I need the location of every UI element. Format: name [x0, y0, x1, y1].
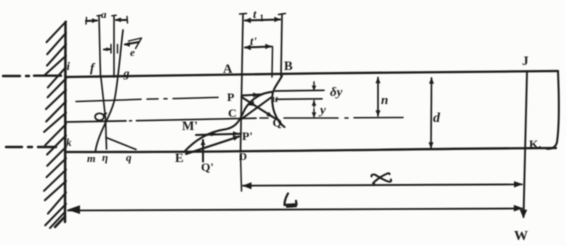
curve of displaced section B-u-Q — [272, 76, 284, 127]
svg-text:J: J — [522, 53, 529, 68]
dimension n — [377, 78, 379, 117]
svg-text:t': t' — [250, 34, 257, 48]
P fibre line (left, dash-dot to P) — [76, 97, 218, 101]
dimension t1 — [245, 20, 280, 21]
wall hatching — [44, 22, 66, 229]
section AD line — [241, 14, 244, 152]
fibre V1 top serif — [97, 14, 102, 17]
M' to P' arrow line — [196, 134, 241, 135]
beam bottom line — [66, 148, 556, 152]
svg-text:g: g — [123, 66, 130, 80]
fibre V2 top serif — [112, 14, 117, 17]
fibre vertical V1 (left of section mf) — [99, 16, 101, 77]
svg-text:Q': Q' — [201, 160, 214, 174]
svg-text:E: E — [175, 150, 184, 165]
dimension a: right arrow — [116, 19, 127, 21]
dimension a (top-left): left arrow — [86, 20, 97, 23]
svg-text:k: k — [66, 137, 72, 149]
svg-text:Q: Q — [273, 116, 282, 130]
svg-text:t: t — [253, 7, 257, 21]
warped section S-curve (through o to m) — [96, 30, 124, 151]
y tick upper — [313, 101, 315, 108]
dash extension bottom-left — [6, 146, 56, 148]
svg-text:1: 1 — [260, 13, 265, 23]
svg-text:δy: δy — [330, 84, 343, 99]
bottom triangle hypotenuse — [106, 138, 136, 150]
Q' vertical arrow — [202, 140, 204, 162]
e ticks — [110, 45, 112, 54]
X line P to Q — [242, 97, 277, 119]
beam top line — [66, 71, 558, 77]
svg-text:y: y — [318, 102, 326, 117]
svg-text:P: P — [227, 90, 234, 104]
B section top serif — [279, 14, 286, 15]
E to P' slant arrow — [186, 137, 239, 155]
dimension x line — [243, 184, 522, 185]
load W line (section JK) — [524, 72, 528, 218]
svg-text:e: e — [130, 47, 135, 59]
svg-text:M': M' — [182, 118, 198, 133]
neutral axis line (through o and C) — [66, 121, 126, 122]
W arrowhead — [520, 209, 528, 218]
section AD extension below beam — [241, 155, 242, 191]
dash-dot extension top-left — [3, 74, 61, 77]
section AD top serif — [240, 13, 247, 16]
svg-text:q: q — [126, 152, 132, 164]
delta-y upper line — [275, 89, 324, 92]
svg-text:W: W — [514, 229, 528, 244]
B section vertical — [281, 14, 282, 76]
label x — [371, 173, 391, 184]
svg-text:d: d — [433, 111, 441, 126]
svg-text:n: n — [381, 92, 388, 107]
arrow P to u — [242, 94, 262, 95]
o marker — [95, 113, 104, 120]
label L — [285, 194, 297, 207]
fibre vertical V2 (original section g) — [113, 16, 115, 77]
long warped curve E to u — [184, 92, 273, 152]
X line u to C — [242, 98, 272, 120]
svg-text:C: C — [228, 106, 237, 120]
y tick lower — [313, 109, 315, 117]
dimension t' — [245, 47, 271, 48]
svg-text:D: D — [239, 151, 247, 163]
svg-text:K.: K. — [529, 137, 541, 151]
svg-text:i: i — [67, 59, 71, 73]
svg-text:a: a — [101, 9, 107, 21]
delta-y lower line — [276, 98, 322, 101]
svg-text:A: A — [223, 61, 233, 76]
wall line — [64, 22, 67, 222]
svg-text:P': P' — [242, 129, 253, 143]
o tail — [104, 113, 107, 114]
svg-text:f: f — [90, 60, 96, 75]
dimension L line — [68, 209, 522, 211]
beam right edge — [547, 72, 559, 149]
svg-text:B: B — [284, 58, 293, 73]
svg-text:η: η — [102, 152, 108, 164]
displaced B vertical (t' right end) — [271, 47, 274, 78]
svg-text:u: u — [272, 93, 278, 105]
e leader arrow — [125, 42, 139, 45]
delta-y tick — [313, 82, 315, 90]
dimension d — [430, 78, 433, 148]
fibre vertical V1 lower part (inside beam, to eta point) — [101, 78, 107, 149]
svg-text:m: m — [87, 153, 96, 165]
